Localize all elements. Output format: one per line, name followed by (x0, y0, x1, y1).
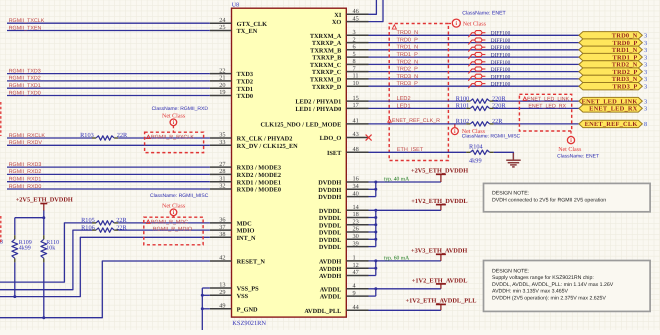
pin 45 XO (right) (332, 15, 369, 26)
ground (506, 153, 521, 167)
svg-text:DIFF100: DIFF100 (491, 74, 511, 80)
net label ENET_LED_LINK (in box) (523, 96, 570, 102)
resistor R109 4k99 (pull-up) (12, 235, 32, 262)
wire VSS_PS / VSS / P_GND to ground rail (202, 288, 210, 330)
svg-text:29: 29 (219, 289, 225, 296)
wire net XTAL XO (369, 0, 384, 22)
svg-text:25: 25 (219, 24, 225, 31)
pin 19 TXD0 (left) (210, 89, 253, 100)
wire net LED2 (left segment) (369, 100, 467, 102)
svg-text:ClassName: RGMII_MISC: ClassName: RGMII_MISC (462, 134, 521, 140)
svg-text:ENET_LED_LINK: ENET_LED_LINK (527, 96, 570, 102)
wire R109 to INT_N net (14, 262, 16, 296)
svg-text:ENET_LED_RX: ENET_LED_RX (528, 104, 566, 110)
pin 21 TXD2 (left) (210, 75, 253, 86)
svg-text:RX_CLK / PHYAD2: RX_CLK / PHYAD2 (237, 136, 293, 143)
DIFF100 directive on TRD0_N (468, 31, 485, 38)
svg-text:RGMII_TXD2: RGMII_TXD2 (9, 76, 41, 82)
svg-text:22: 22 (219, 67, 225, 74)
svg-text:21: 21 (219, 75, 225, 82)
svg-text:INT_N: INT_N (237, 235, 256, 242)
svg-text:DIFF100: DIFF100 (491, 60, 511, 66)
svg-text:ClassName: ENET: ClassName: ENET (462, 10, 506, 16)
svg-text:AVDDH: min 3.135V max 3.465V: AVDDH: min 3.135V max 3.465V (492, 289, 569, 295)
resistor R103 22R (80, 132, 128, 140)
wire R104 to ground (494, 152, 514, 160)
svg-text:19: 19 (219, 89, 225, 96)
svg-text:3: 3 (644, 76, 647, 83)
resistor R100 220R (456, 95, 507, 103)
svg-text:ETH_ISET: ETH_ISET (397, 147, 424, 153)
svg-text:TRD2_N: TRD2_N (397, 59, 419, 65)
svg-text:R104: R104 (469, 144, 483, 151)
svg-text:LED1 / PHYAD0: LED1 / PHYAD0 (295, 106, 341, 113)
svg-text:23: 23 (353, 219, 359, 226)
svg-text:RXD0 / MODE0: RXD0 / MODE0 (237, 187, 281, 194)
DIFF100 directive on TRD0_P (468, 38, 485, 45)
pin 41 CLK125_NDO / LED_MODE (right) (260, 118, 368, 129)
svg-text:TXRXM_D: TXRXM_D (310, 77, 342, 84)
pin 31 RXD1 / MODE1 (left) (210, 175, 281, 186)
pin 12 AVDDH (right) (319, 262, 368, 273)
svg-text:ENET_LED_RX: ENET_LED_RX (589, 106, 638, 113)
svg-text:MDC: MDC (237, 221, 252, 228)
svg-text:8: 8 (353, 58, 356, 65)
svg-text:RGMII_R_MDC: RGMII_R_MDC (151, 219, 189, 225)
wire net RGMII_TXCLK (7, 18, 210, 24)
svg-text:DVDDL: DVDDL (319, 208, 341, 215)
resistor R110 10k (pull-up) (41, 218, 59, 263)
pin 36 MDC (left) (210, 217, 252, 228)
svg-text:CLK125_NDO / LED_MODE: CLK125_NDO / LED_MODE (260, 122, 341, 129)
net label ENET_REF_CLK_R (388, 118, 440, 124)
svg-text:31: 31 (219, 175, 225, 182)
wire net RGMII_RXCLK (left segment) (7, 137, 92, 139)
svg-text:1: 1 (353, 255, 356, 262)
DIFF100 directive on TRD3_P (468, 82, 485, 89)
blanket box RGMII_R_RXCLK (145, 132, 204, 152)
wire AVDDL rail (369, 289, 441, 296)
svg-text:ClassName: RGMII_RXD: ClassName: RGMII_RXD (152, 106, 209, 112)
power +2V5_ETH_DVDDH (left rail) (15, 196, 73, 235)
DIFF100 directive on TRD2_N (468, 60, 485, 67)
svg-text:TRD0_N: TRD0_N (397, 30, 419, 36)
resistor R102 22R (456, 118, 504, 126)
junction DVDDL y239.3 (374, 238, 377, 241)
svg-text:DVDDL: DVDDL (319, 230, 341, 237)
svg-text:DESIGN NOTE:: DESIGN NOTE: (492, 191, 529, 197)
pin 30 DVDDL (right) (319, 233, 369, 244)
svg-text:RGMII_R_RXCLK: RGMII_R_RXCLK (151, 135, 194, 141)
svg-text:AVDDL: AVDDL (320, 294, 342, 301)
pin 14 DVDDL (right) (319, 204, 369, 215)
svg-text:13: 13 (219, 282, 225, 289)
svg-text:VSS_PS: VSS_PS (237, 286, 260, 293)
wire net XTAL XI (369, 0, 377, 14)
svg-text:3: 3 (644, 98, 647, 105)
svg-text:43: 43 (353, 131, 359, 138)
wire net MDC right segment (118, 222, 210, 224)
pin 39 DVDDL (right) (319, 240, 369, 251)
wire RGMII_R_RXCLK segment to pin 35 (118, 137, 210, 139)
pin 32 RXD0 / MODE0 (left) (210, 183, 281, 194)
svg-text:DVDDH: DVDDH (318, 194, 341, 201)
pin 29 VSS (left) (210, 289, 249, 300)
net label RGMII_R_RXCLK (147, 135, 195, 141)
svg-text:28: 28 (219, 168, 225, 175)
wire DVDDL rail (369, 210, 441, 246)
pin 25 TX_EN (left) (210, 24, 258, 35)
svg-text:3: 3 (644, 47, 647, 54)
svg-text:12: 12 (353, 262, 359, 269)
svg-text:RESET_N: RESET_N (237, 259, 266, 266)
svg-text:9: 9 (353, 290, 356, 297)
svg-text:TXRXP_C: TXRXP_C (312, 69, 342, 76)
junction AVDDH pin12 (374, 267, 377, 270)
svg-text:44: 44 (353, 304, 360, 311)
resistor R105 22R (81, 217, 127, 225)
svg-text:3: 3 (644, 106, 647, 113)
wire net ENET_REF_CLK_R (left segment) (369, 123, 467, 125)
svg-text:24: 24 (219, 17, 226, 24)
svg-text:Net Class: Net Class (162, 112, 186, 119)
pin 34 DVDDH (right) (318, 183, 368, 194)
pin 27 RXD3 / MODE3 (left) (210, 161, 281, 172)
svg-text:RGMII_TXD3: RGMII_TXD3 (9, 68, 41, 74)
pin 17 LED1 / PHYAD0 (right) (295, 102, 368, 113)
wire net TRD2_N (369, 63, 579, 65)
svg-text:VSS: VSS (237, 293, 249, 300)
svg-text:10: 10 (353, 80, 359, 87)
svg-text:DVDDH: DVDDH (318, 180, 341, 187)
svg-text:16: 16 (353, 176, 359, 183)
pin 49 P_GND (left) (210, 303, 258, 314)
svg-text:GTX_CLK: GTX_CLK (237, 21, 268, 28)
resistor R106 22R (81, 224, 127, 232)
port ENET_LED_RX (579, 105, 647, 113)
svg-text:RGMII_TXD0: RGMII_TXD0 (9, 90, 41, 96)
svg-text:ENET_REF_CLK: ENET_REF_CLK (585, 121, 638, 128)
svg-text:TX_EN: TX_EN (237, 28, 258, 35)
svg-text:RGMII_RXDV: RGMII_RXDV (9, 140, 43, 146)
svg-text:XO: XO (332, 19, 342, 26)
svg-text:TXD0: TXD0 (237, 93, 253, 100)
svg-text:DVDDL: DVDDL (319, 244, 341, 251)
wire net RESET_N (0, 261, 210, 318)
svg-text:DIFF100: DIFF100 (491, 31, 511, 37)
svg-text:27: 27 (219, 161, 225, 168)
svg-text:LED2: LED2 (397, 96, 411, 102)
svg-text:39: 39 (353, 240, 359, 247)
svg-text:TXRXP_A: TXRXP_A (312, 40, 342, 47)
svg-text:TRD3_P: TRD3_P (613, 83, 638, 90)
wire net RGMII_MDC exit (0, 223, 92, 282)
junction AVDDL pin4 (374, 287, 377, 290)
svg-text:DVDDL: DVDDL (319, 237, 341, 244)
wire net RGMII_RXD3 (7, 162, 210, 168)
svg-text:U8: U8 (232, 3, 239, 9)
svg-text:TRD0_P: TRD0_P (397, 38, 419, 44)
design note box 1 (484, 183, 651, 211)
svg-text:RGMII_RXD1: RGMII_RXD1 (9, 177, 42, 183)
blanket box ENET LED nets (519, 94, 571, 131)
wire net RGMII_RXDV (7, 140, 210, 146)
pin 7 TXRXP_C (right) (312, 65, 369, 76)
port TRD0_N (579, 32, 647, 40)
junction R110 to RESET_N (42, 316, 45, 319)
pin 22 TXD3 (left) (210, 67, 253, 78)
svg-text:41: 41 (353, 118, 359, 125)
blanket box RGMII_R_MDC / RGMII_R_MDIO (144, 217, 203, 245)
pin 18 DVDDL (right) (319, 211, 369, 222)
port TRD1_P (579, 53, 647, 61)
svg-text:48: 48 (353, 146, 359, 153)
svg-text:RGMII_TXD1: RGMII_TXD1 (9, 83, 41, 89)
svg-text:TXRXM_B: TXRXM_B (310, 47, 342, 54)
svg-text:DVDH connected to 2V5 for RGMI: DVDH connected to 2V5 for RGMII 2V5 oper… (492, 197, 606, 203)
svg-text:RXD1 / MODE1: RXD1 / MODE1 (237, 179, 281, 186)
pin 9 AVDDL (right) (320, 290, 369, 301)
junction DVDDL y224.8 (374, 223, 377, 226)
svg-text:DVDDL, AVDDL, AVDDL_PLL: min 1: DVDDL, AVDDL, AVDDL_PLL: min 1.14V max 1… (492, 282, 614, 288)
wire net RGMII_TXD0 (7, 90, 210, 96)
pin 46 XI (right) (334, 8, 368, 19)
svg-text:3: 3 (644, 69, 647, 76)
pin 35 RX_CLK / PHYAD2 (left) (210, 132, 293, 143)
svg-text:P_GND: P_GND (237, 306, 258, 313)
svg-text:DVDDL: DVDDL (319, 215, 341, 222)
svg-text:3: 3 (644, 84, 647, 91)
cropped blanket edge (left, RGMII_MISC) (0, 216, 2, 243)
junction +2V5 rail / R110 (42, 216, 45, 219)
svg-text:DVDDL: DVDDL (319, 222, 341, 229)
svg-text:DIFF100: DIFF100 (491, 45, 511, 51)
pin 23 DVDDL (right) (319, 219, 369, 230)
svg-text:35: 35 (219, 132, 225, 139)
svg-text:LED1: LED1 (397, 104, 411, 110)
DIFF100 directive on TRD1_P (468, 52, 485, 59)
svg-text:TRD3_N: TRD3_N (397, 74, 419, 80)
svg-text:RXD3 / MODE3: RXD3 / MODE3 (237, 165, 281, 172)
wire net ENET_LED_RX (494, 107, 579, 109)
svg-text:Net Class: Net Class (558, 146, 582, 153)
svg-text:DIFF100: DIFF100 (491, 38, 511, 44)
net label RGMII_R_MDC (146, 219, 188, 225)
svg-text:RXD2 / MODE2: RXD2 / MODE2 (237, 172, 281, 179)
power +1V2_ETH_AVDDL_PLL (406, 298, 477, 311)
power +3V3_ETH_AVDDH (411, 248, 467, 261)
svg-text:3: 3 (644, 40, 647, 47)
svg-text:TRD3_P: TRD3_P (397, 81, 419, 87)
wire net ENET_LED_LINK (494, 100, 579, 102)
svg-text:TXD3: TXD3 (237, 71, 253, 78)
svg-text:DIFF100: DIFF100 (491, 67, 511, 73)
svg-text:DVDDH: DVDDH (318, 187, 341, 194)
svg-text:RGMII_RXD3: RGMII_RXD3 (9, 162, 42, 168)
port TRD3_N (579, 75, 647, 83)
svg-text:45: 45 (353, 15, 359, 22)
net class directive ENET (LED box) (557, 131, 599, 159)
svg-text:38: 38 (219, 231, 225, 238)
wire net TRD1_N (369, 49, 579, 51)
svg-text:ENET_REF_CLK_R: ENET_REF_CLK_R (392, 118, 440, 124)
svg-text:TXRXP_D: TXRXP_D (312, 84, 342, 91)
svg-text:5: 5 (353, 51, 356, 58)
svg-text:R102: R102 (456, 118, 470, 125)
svg-text:22R: 22R (116, 224, 127, 231)
svg-text:46: 46 (353, 8, 359, 15)
svg-text:AVDDL_PLL: AVDDL_PLL (304, 308, 341, 315)
port ENET_LED_LINK (579, 97, 647, 105)
wire DVDDH rail (369, 182, 441, 197)
svg-text:TRD1_P: TRD1_P (397, 52, 419, 58)
pin 40 DVDDH (right) (318, 190, 368, 201)
port TRD3_P (579, 83, 647, 91)
svg-text:DESIGN NOTE:: DESIGN NOTE: (492, 268, 529, 274)
blanket box ENET nets (389, 24, 448, 161)
svg-text:MDIO: MDIO (237, 228, 255, 235)
svg-text:typ. 40 mA: typ. 40 mA (384, 177, 409, 183)
junction DVDDL y210.3 (374, 209, 377, 212)
svg-text:AVDDH: AVDDH (319, 259, 341, 266)
net class directive ENET (top) (448, 10, 506, 27)
svg-text:34: 34 (353, 183, 360, 190)
pin 48 ISET (right) (327, 146, 369, 157)
svg-text:RGMII_RXCLK: RGMII_RXCLK (9, 133, 46, 139)
svg-text:4k99: 4k99 (469, 158, 482, 165)
svg-text:TXRXM_C: TXRXM_C (310, 62, 342, 69)
svg-text:18: 18 (353, 211, 359, 218)
IC U8 KSZ9021RN body (232, 8, 347, 317)
pin 2 TXRXP_A (right) (312, 36, 369, 47)
junction DVDDL y232.0 (374, 231, 377, 234)
svg-text:22R: 22R (116, 217, 127, 224)
svg-text:TXRXP_B: TXRXP_B (312, 55, 342, 62)
svg-text:RGMII_TXCLK: RGMII_TXCLK (9, 18, 45, 24)
svg-text:3: 3 (644, 33, 647, 40)
wire net ENET_REF_CLK (494, 123, 579, 125)
svg-text:17: 17 (353, 102, 359, 109)
svg-text:TRD1_N: TRD1_N (397, 45, 419, 51)
pin 1 AVDDH (right) (319, 255, 368, 266)
svg-text:8: 8 (644, 121, 647, 128)
wire net LED1 (left segment) (369, 107, 467, 109)
wire AVDDL_PLL (369, 309, 441, 311)
svg-text:LED2 / PHYAD1: LED2 / PHYAD1 (295, 99, 341, 106)
svg-text:RGMII_R_MDIO: RGMII_R_MDIO (153, 227, 192, 233)
svg-text:TXRXM_A: TXRXM_A (310, 33, 342, 40)
DIFF100 directive on TRD1_N (468, 45, 485, 52)
svg-text:32: 32 (219, 183, 225, 190)
wire net TRD0_P (369, 42, 579, 44)
pin 26 DVDDL (right) (319, 226, 369, 237)
svg-text:2: 2 (353, 36, 356, 43)
svg-text:36: 36 (219, 217, 225, 224)
power +1V2_ETH_AVDDL (412, 277, 468, 289)
wire AVDDH rail (369, 261, 441, 276)
svg-text:RGMII_TXEN: RGMII_TXEN (9, 25, 42, 31)
svg-text:3: 3 (353, 29, 356, 36)
pin 47 AVDDH (right) (319, 269, 368, 280)
wire net RGMII_RXD2 (7, 169, 210, 175)
wire net TRD2_P (369, 71, 579, 73)
svg-text:+2V5_ETH_DVDDH: +2V5_ETH_DVDDH (16, 196, 73, 203)
power +2V5_ETH_DVDDH (411, 168, 468, 182)
wire net RGMII_TXEN (7, 25, 210, 31)
junction P_GND (201, 307, 204, 310)
design note box 2 (484, 261, 651, 312)
svg-text:42: 42 (219, 255, 225, 262)
port TRD1_N (579, 46, 647, 54)
svg-text:AVDDL: AVDDL (320, 286, 342, 293)
svg-text:AVDDH: AVDDH (319, 273, 341, 280)
wire net MDIO right segment (118, 229, 210, 231)
svg-text:Net Class: Net Class (463, 21, 487, 28)
pin 6 TXRXM_B (right) (310, 44, 368, 55)
pin 28 RXD2 / MODE2 (left) (210, 168, 281, 179)
svg-text:11: 11 (353, 73, 359, 80)
svg-text:6: 6 (353, 44, 356, 51)
svg-text:TRD2_P: TRD2_P (397, 67, 419, 73)
net class directive RGMII_RXD (152, 106, 209, 132)
svg-text:TXD2: TXD2 (237, 79, 253, 86)
svg-text:RGMII_RXD2: RGMII_RXD2 (9, 169, 42, 175)
junction DVDDL y217.5 (374, 216, 377, 219)
wire net INT_N (0, 237, 210, 296)
svg-text:XI: XI (334, 12, 342, 19)
wire net TRD1_P (369, 56, 579, 58)
pin 42 RESET_N (left) (210, 255, 266, 266)
pin 16 DVDDH (right) (318, 176, 368, 187)
wire net RGMII_RXD0 (7, 184, 210, 190)
svg-text:26: 26 (353, 226, 359, 233)
net class directive RGMII_MISC (on ENET_REF_CLK_R) (451, 125, 520, 140)
resistor R101 220R (456, 103, 507, 111)
port TRD2_N (579, 61, 647, 69)
svg-text:R103: R103 (80, 132, 94, 139)
svg-text:14: 14 (353, 204, 360, 211)
svg-text:KSZ9021RN: KSZ9021RN (232, 320, 266, 327)
svg-text:typ. 60 mA: typ. 60 mA (384, 255, 409, 261)
svg-text:R101: R101 (456, 103, 470, 110)
svg-text:3: 3 (644, 54, 647, 61)
port ENET_REF_CLK (579, 120, 647, 128)
svg-text:33: 33 (219, 139, 225, 146)
svg-text:7: 7 (353, 65, 356, 72)
svg-text:RGMII_RXD0: RGMII_RXD0 (9, 184, 42, 190)
wire net RGMII_TXD3 (7, 68, 210, 74)
pin 33 RX_DV / CLK125_EN (left) (210, 139, 298, 150)
DIFF100 directive on TRD3_N (468, 74, 485, 81)
junction AVDDH pin1 (374, 259, 377, 262)
wire net TRD3_N (369, 78, 579, 80)
wire net RGMII_RXD1 (7, 177, 210, 183)
svg-text:20: 20 (219, 82, 225, 89)
pin 5 TXRXP_B (right) (312, 51, 368, 62)
pin 24 GTX_CLK (left) (210, 17, 267, 28)
junction VSS (201, 294, 204, 297)
cropped blanket edge (left, RGMII_RXD) (0, 102, 2, 136)
junction R109 to INT_N (13, 295, 16, 298)
resistor R104 4k99 (466, 144, 494, 165)
svg-text:30: 30 (353, 233, 359, 240)
svg-text:47: 47 (353, 269, 359, 276)
pin 37 MDIO (left) (210, 224, 255, 235)
svg-text:DIFF100: DIFF100 (491, 82, 511, 88)
wire net RGMII_MDIO exit (0, 230, 92, 290)
wire net ETH_ISET (369, 151, 467, 153)
svg-text:37: 37 (219, 224, 225, 231)
